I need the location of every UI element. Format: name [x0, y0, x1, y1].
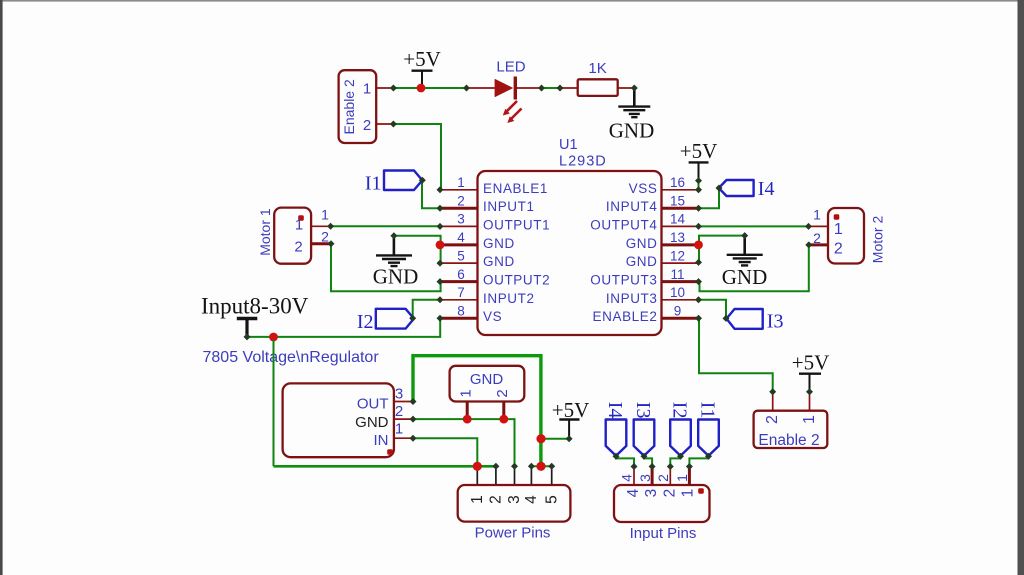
svg-text:3: 3: [637, 474, 653, 482]
svg-text:3: 3: [506, 495, 523, 504]
svg-text:Input8-30V: Input8-30V: [201, 294, 309, 319]
svg-text:2: 2: [661, 489, 678, 498]
svg-text:1: 1: [457, 175, 465, 190]
svg-text:3: 3: [395, 386, 403, 403]
svg-text:I4: I4: [604, 402, 626, 419]
svg-text:ENABLE2: ENABLE2: [593, 309, 658, 324]
svg-text:1: 1: [321, 207, 329, 223]
svg-text:16: 16: [670, 175, 685, 190]
svg-text:2: 2: [294, 239, 302, 256]
svg-text:3: 3: [643, 489, 660, 498]
svg-text:GND: GND: [483, 254, 515, 269]
svg-text:OUTPUT2: OUTPUT2: [483, 273, 550, 288]
svg-text:OUT: OUT: [357, 396, 389, 413]
svg-text:2: 2: [488, 495, 505, 504]
svg-text:7: 7: [457, 285, 465, 300]
svg-text:2: 2: [363, 117, 371, 134]
svg-text:VS: VS: [483, 309, 502, 324]
svg-text:7805 Voltage\nRegulator: 7805 Voltage\nRegulator: [203, 349, 380, 366]
svg-text:12: 12: [670, 248, 685, 263]
svg-text:GND: GND: [373, 265, 419, 289]
svg-text:Enable 2: Enable 2: [758, 432, 819, 449]
svg-text:INPUT1: INPUT1: [483, 199, 535, 214]
svg-text:2: 2: [655, 474, 671, 482]
svg-text:5: 5: [543, 495, 560, 504]
svg-text:IN: IN: [374, 432, 389, 449]
svg-text:2: 2: [494, 389, 511, 397]
svg-text:OUTPUT4: OUTPUT4: [590, 217, 657, 232]
svg-text:GND: GND: [722, 265, 768, 289]
svg-text:I2: I2: [669, 402, 691, 419]
svg-text:1: 1: [363, 81, 371, 98]
svg-text:VSS: VSS: [629, 181, 658, 196]
svg-text:INPUT3: INPUT3: [606, 291, 658, 306]
svg-text:10: 10: [670, 285, 685, 300]
svg-text:1: 1: [680, 489, 697, 498]
svg-text:4: 4: [457, 230, 465, 245]
svg-text:8: 8: [457, 303, 465, 318]
svg-text:+5V: +5V: [403, 47, 441, 71]
svg-text:11: 11: [670, 267, 684, 282]
svg-text:INPUT4: INPUT4: [606, 199, 658, 214]
svg-text:2: 2: [764, 415, 781, 424]
svg-text:I3: I3: [632, 402, 654, 419]
svg-text:2: 2: [813, 230, 821, 246]
svg-text:14: 14: [670, 212, 686, 227]
svg-text:GND: GND: [626, 236, 658, 251]
svg-text:INPUT2: INPUT2: [483, 291, 535, 306]
svg-text:1: 1: [801, 415, 818, 424]
svg-text:+5V: +5V: [792, 351, 830, 375]
svg-text:2: 2: [321, 229, 329, 245]
svg-text:Power Pins: Power Pins: [475, 525, 551, 542]
svg-text:1: 1: [395, 421, 403, 438]
svg-text:L293D: L293D: [559, 154, 607, 170]
svg-text:GND: GND: [483, 236, 515, 251]
svg-text:Enable 2: Enable 2: [341, 79, 357, 134]
svg-text:LED: LED: [496, 59, 525, 76]
svg-text:13: 13: [670, 230, 685, 245]
svg-text:OUTPUT1: OUTPUT1: [483, 217, 550, 232]
svg-text:Input Pins: Input Pins: [630, 525, 697, 542]
svg-text:GND: GND: [609, 119, 655, 143]
svg-text:I1: I1: [365, 172, 382, 194]
svg-text:15: 15: [670, 193, 685, 208]
svg-text:4: 4: [523, 495, 540, 504]
svg-text:2: 2: [395, 403, 403, 420]
svg-text:I1: I1: [697, 402, 719, 419]
svg-text:1: 1: [674, 474, 690, 482]
svg-text:+5V: +5V: [680, 139, 718, 163]
svg-text:GND: GND: [626, 254, 658, 269]
svg-text:Motor 1: Motor 1: [257, 208, 273, 256]
svg-text:2: 2: [834, 241, 843, 258]
svg-text:4: 4: [625, 488, 642, 497]
svg-text:1: 1: [457, 389, 474, 397]
svg-text:1: 1: [834, 221, 843, 238]
svg-text:5: 5: [457, 248, 465, 263]
svg-text:4: 4: [619, 474, 635, 482]
svg-text:I2: I2: [357, 311, 374, 333]
svg-text:ENABLE1: ENABLE1: [483, 181, 548, 196]
svg-text:I4: I4: [758, 178, 775, 200]
svg-text:1: 1: [813, 207, 821, 223]
svg-text:OUTPUT3: OUTPUT3: [590, 273, 657, 288]
svg-text:I3: I3: [767, 311, 784, 333]
svg-text:3: 3: [457, 212, 465, 227]
svg-text:1K: 1K: [588, 60, 606, 77]
svg-text:1: 1: [469, 495, 486, 504]
svg-text:+5V: +5V: [552, 398, 590, 422]
svg-text:2: 2: [457, 193, 465, 208]
svg-text:Motor 2: Motor 2: [870, 216, 886, 264]
svg-text:1: 1: [295, 217, 303, 234]
svg-text:9: 9: [674, 303, 682, 318]
svg-text:GND: GND: [355, 414, 389, 431]
svg-text:GND: GND: [470, 371, 504, 388]
svg-text:6: 6: [457, 267, 465, 282]
svg-text:U1: U1: [559, 137, 578, 153]
